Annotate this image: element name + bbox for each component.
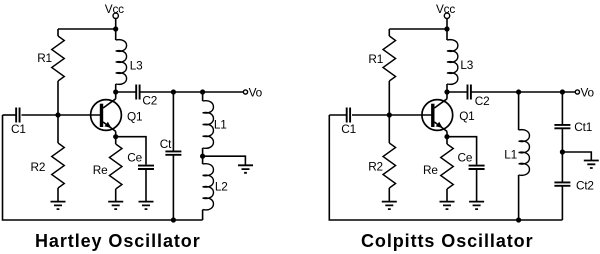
svg-text:C2: C2 bbox=[142, 94, 157, 108]
svg-text:Vo: Vo bbox=[249, 86, 263, 100]
svg-text:C1: C1 bbox=[11, 122, 26, 136]
svg-text:Vo: Vo bbox=[581, 86, 595, 100]
svg-text:L1: L1 bbox=[214, 117, 227, 131]
svg-text:C1: C1 bbox=[341, 122, 356, 136]
svg-text:R1: R1 bbox=[368, 52, 383, 66]
svg-text:Re: Re bbox=[93, 163, 108, 177]
svg-text:Re: Re bbox=[423, 163, 438, 177]
svg-text:Q1: Q1 bbox=[127, 109, 142, 123]
svg-text:C2: C2 bbox=[475, 94, 490, 108]
svg-text:L3: L3 bbox=[460, 58, 473, 72]
svg-text:L2: L2 bbox=[215, 179, 228, 193]
svg-text:L1: L1 bbox=[504, 147, 517, 161]
svg-text:R1: R1 bbox=[37, 51, 52, 65]
svg-text:Colpitts Oscillator: Colpitts Oscillator bbox=[361, 231, 534, 251]
svg-text:Ct1: Ct1 bbox=[574, 120, 592, 134]
svg-text:L3: L3 bbox=[130, 59, 143, 73]
svg-text:Ct: Ct bbox=[160, 137, 172, 151]
svg-text:R2: R2 bbox=[368, 159, 383, 173]
svg-text:Hartley Oscillator: Hartley Oscillator bbox=[35, 231, 201, 251]
svg-text:Ct2: Ct2 bbox=[576, 178, 594, 192]
svg-text:Q1: Q1 bbox=[459, 109, 474, 123]
svg-text:R2: R2 bbox=[31, 160, 46, 174]
svg-text:Ce: Ce bbox=[458, 150, 473, 164]
svg-text:Ce: Ce bbox=[127, 150, 142, 164]
